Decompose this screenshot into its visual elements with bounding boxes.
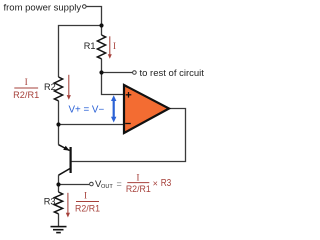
svg-text:R2/R1: R2/R1 [75,204,100,214]
svg-text:to rest of circuit: to rest of circuit [140,68,205,79]
svg-text:from power supply: from power supply [4,3,82,14]
svg-text:R1: R1 [84,41,96,51]
svg-text:R2/R1: R2/R1 [13,90,39,100]
svg-text:=: = [117,179,122,189]
svg-text:I: I [84,191,87,201]
svg-text:R2/R1: R2/R1 [126,184,151,194]
svg-text:R2: R2 [44,82,56,92]
svg-text:I: I [25,78,28,88]
svg-text:R3: R3 [161,178,172,189]
svg-text:V+ = V−: V+ = V− [69,104,105,115]
svg-text:OUT: OUT [101,184,113,190]
svg-text:I: I [113,41,116,51]
svg-text:R3: R3 [44,197,56,207]
svg-text:×: × [153,178,158,188]
